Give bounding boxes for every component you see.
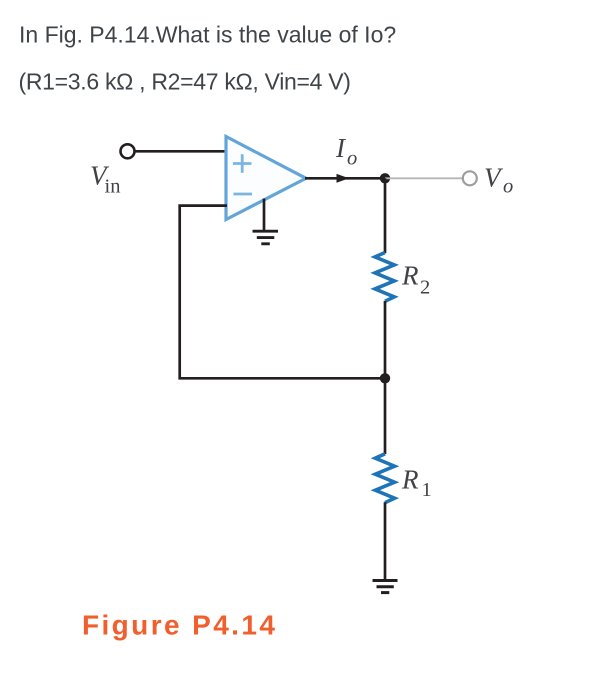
op-amp minus sign xyxy=(234,193,253,196)
svg-text:o: o xyxy=(503,176,513,198)
current arrow Io xyxy=(337,174,350,183)
op-amp plus sign xyxy=(233,154,252,173)
wire Vin to op-amp + input xyxy=(135,150,228,153)
wire node to R1 top xyxy=(384,378,387,454)
wire op-amp output xyxy=(305,177,385,180)
gray wire to Vo terminal xyxy=(385,177,462,179)
svg-text:(R1=3.6 kΩ , R2=47 kΩ, Vin=4 V: (R1=3.6 kΩ , R2=47 kΩ, Vin=4 V) xyxy=(19,68,351,94)
svg-text:Figure P4.14: Figure P4.14 xyxy=(82,610,277,641)
resistor R2 xyxy=(375,253,394,302)
svg-text:o: o xyxy=(347,148,357,170)
svg-text:R: R xyxy=(401,261,419,291)
svg-text:R: R xyxy=(401,464,419,494)
feedback node xyxy=(380,373,390,383)
svg-text:in: in xyxy=(105,176,121,198)
svg-text:2: 2 xyxy=(420,276,430,298)
wire op-amp bottom edge to ground xyxy=(263,199,266,231)
ground (bottom) xyxy=(373,581,398,593)
wire R2 bottom to feedback node xyxy=(384,301,387,378)
input terminal circle xyxy=(121,144,135,158)
svg-text:In Fig. P4.14.What is the valu: In Fig. P4.14.What is the value of Io? xyxy=(19,21,396,47)
wire node to R2 top xyxy=(384,178,387,253)
ground (op-amp) xyxy=(253,231,279,244)
svg-text:1: 1 xyxy=(422,479,432,501)
resistor R1 xyxy=(375,454,394,503)
op-amp U1 xyxy=(226,137,306,220)
feedback wire to inverting input xyxy=(180,206,385,379)
node at op-amp output xyxy=(380,173,390,183)
output terminal circle Vo xyxy=(463,171,477,185)
wire R1 bottom to ground xyxy=(384,502,387,580)
